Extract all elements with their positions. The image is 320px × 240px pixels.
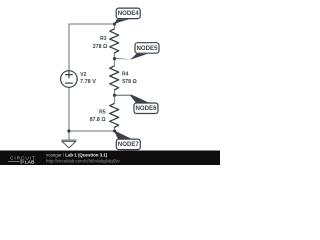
node C junction R4-R5	[113, 94, 116, 97]
svg-text:NODE5: NODE5	[137, 45, 159, 52]
node E junction bottom left	[67, 129, 70, 132]
ground	[61, 140, 76, 148]
svg-text:578 Ω: 578 Ω	[122, 79, 137, 85]
svg-text:278 Ω: 278 Ω	[93, 44, 108, 50]
svg-text:7.78 V: 7.78 V	[80, 79, 96, 85]
wire top horizontal	[69, 23, 115, 25]
node D junction bottom right	[113, 129, 116, 132]
footer CircuitLab logo	[8, 155, 36, 165]
wire right column stub 2	[114, 53, 116, 66]
footer bar	[0, 151, 220, 166]
svg-text:NODE7: NODE7	[118, 141, 140, 148]
svg-text:NODE4: NODE4	[118, 10, 140, 17]
resistor R5	[110, 104, 119, 128]
svg-text:V2: V2	[80, 72, 86, 78]
node NODE4 flag	[114, 8, 140, 24]
wire right column stub 4	[114, 128, 116, 132]
node NODE7 flag	[114, 131, 140, 150]
resistor R4	[110, 66, 119, 90]
wire left vertical lower	[68, 87, 70, 139]
svg-text:R4: R4	[122, 72, 129, 78]
svg-text:LAB: LAB	[25, 159, 35, 165]
wire right column stub 1	[114, 24, 116, 29]
wire right column stub 3	[114, 90, 116, 104]
node NODE5 flag	[115, 43, 160, 60]
svg-text:R5: R5	[99, 109, 106, 115]
node NODE6 flag	[115, 95, 159, 114]
wire left vertical upper	[68, 24, 70, 71]
resistor R3	[110, 29, 119, 53]
wire bottom horizontal	[69, 130, 115, 132]
svg-text:87.8 Ω: 87.8 Ω	[90, 117, 107, 123]
voltage source V2	[61, 71, 78, 88]
svg-text:R3: R3	[100, 36, 107, 42]
svg-text:xcangar / Lab 1 (Question 3.1): xcangar / Lab 1 (Question 3.1)	[46, 153, 108, 158]
svg-text:http://circuitlab.com/c/86h4ab: http://circuitlab.com/c/86h4abg9dq5kv	[46, 158, 121, 163]
svg-text:NODE6: NODE6	[136, 105, 158, 112]
node B junction R3-R4	[113, 57, 116, 60]
node A junction top	[113, 22, 116, 25]
